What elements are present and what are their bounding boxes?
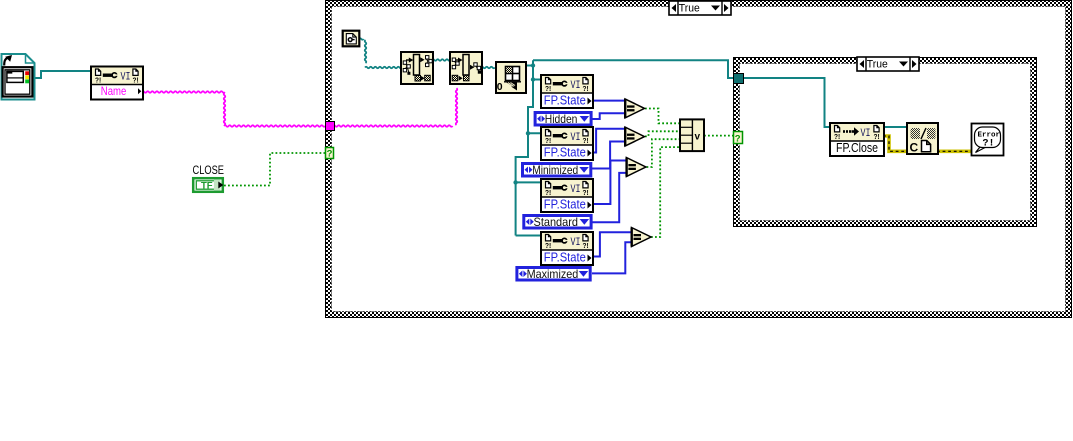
svg-text:0: 0 — [497, 81, 503, 93]
svg-text:Name: Name — [101, 84, 127, 98]
svg-text:Hidden: Hidden — [545, 112, 578, 126]
svg-text:Maximized: Maximized — [527, 267, 579, 281]
svg-text:?!: ?! — [545, 84, 551, 93]
svg-text:VI: VI — [571, 80, 581, 92]
svg-text:?!: ?! — [874, 132, 880, 141]
svg-text:True: True — [679, 3, 700, 15]
svg-text:VI: VI — [571, 184, 581, 196]
svg-text:VI: VI — [121, 72, 131, 84]
svg-text:?!: ?! — [834, 132, 840, 141]
svg-text:?!: ?! — [583, 241, 589, 250]
svg-text:Standard: Standard — [534, 215, 579, 229]
svg-text:CLOSE: CLOSE — [193, 165, 225, 177]
svg-text:?!: ?! — [983, 139, 995, 150]
svg-text:?!: ?! — [583, 136, 589, 145]
svg-text:FP.State: FP.State — [544, 146, 586, 160]
svg-text:?!: ?! — [583, 188, 589, 197]
svg-text:VI: VI — [861, 128, 871, 140]
svg-text:FP.State: FP.State — [544, 251, 586, 265]
svg-text:FP.State: FP.State — [544, 94, 586, 108]
svg-text:C: C — [910, 141, 919, 155]
svg-text:v: v — [695, 132, 701, 143]
svg-text:?!: ?! — [545, 188, 551, 197]
svg-text:?!: ?! — [545, 136, 551, 145]
svg-text:?!: ?! — [133, 76, 139, 85]
svg-text:FP.Close: FP.Close — [836, 141, 878, 155]
svg-text:FP.State: FP.State — [544, 198, 586, 212]
svg-text:VI: VI — [571, 132, 581, 144]
svg-text:TF: TF — [201, 180, 213, 191]
svg-text:True: True — [867, 59, 888, 71]
svg-text:?!: ?! — [583, 84, 589, 93]
svg-text:?: ? — [327, 149, 333, 160]
svg-text:VI: VI — [571, 237, 581, 249]
svg-text:?!: ?! — [545, 241, 551, 250]
svg-text:?: ? — [735, 134, 741, 145]
svg-text:Minimized: Minimized — [532, 163, 578, 177]
